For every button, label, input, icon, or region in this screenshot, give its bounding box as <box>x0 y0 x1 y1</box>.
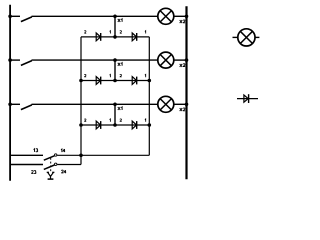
wire row1 from bus to switch S1 <box>10 15 20 17</box>
node branch3 right <box>148 123 152 127</box>
legend diode symbol <box>244 94 249 103</box>
wire 13 from bus to pushbutton contact <box>10 154 43 156</box>
wire lamp H2 to right bus <box>174 59 187 61</box>
switch S3 blade <box>21 105 32 110</box>
wire 24 to left column <box>57 164 81 166</box>
left bus L+ <box>9 5 11 181</box>
node row1 on left bus <box>8 14 12 18</box>
wire X1 drop row1 <box>114 16 116 37</box>
node branch2 right <box>148 79 152 83</box>
label 23 <box>31 171 36 174</box>
wire branch3 <box>81 124 149 126</box>
diode V5 <box>96 121 101 129</box>
switch S1 blade <box>21 17 32 22</box>
node branch3 center <box>113 123 117 127</box>
pin 2 V4 <box>120 74 122 77</box>
node branch2 left <box>79 79 83 83</box>
node row1 on right bus <box>185 14 189 18</box>
wire lamp H3 to right bus <box>174 103 187 105</box>
pin 1 V6 <box>144 119 147 122</box>
legend lamp left stub <box>233 36 238 38</box>
label X1 row2 <box>118 63 122 66</box>
node branch1 center <box>113 35 117 39</box>
pin 2 V5 <box>84 119 86 122</box>
lamp H3 <box>158 96 174 112</box>
wire 14 to right column <box>57 154 149 156</box>
label X1 row3 <box>118 107 122 110</box>
node row3 on right bus <box>185 103 189 107</box>
pin 2 V2 <box>120 31 122 34</box>
wire 23 from bus to pushbutton contact <box>10 164 43 166</box>
node X1 row3 <box>113 103 117 107</box>
lamp H1 <box>158 8 174 24</box>
pin 1 V4 <box>144 74 147 77</box>
diode V4 <box>132 77 137 85</box>
legend diode wire <box>237 98 258 100</box>
wire left diode column <box>80 37 82 155</box>
pin 1 V3 <box>109 74 112 77</box>
lamp H2 <box>158 52 174 68</box>
wire row3 switch to lamp H3 <box>32 103 158 105</box>
node X1 row1 <box>113 14 117 18</box>
legend lamp symbol <box>238 29 255 46</box>
diode V6 <box>132 121 137 129</box>
wire right diode column <box>148 37 150 155</box>
label 14 <box>61 149 65 152</box>
right bus L- <box>185 6 187 179</box>
diode V1 <box>96 33 101 41</box>
wire branch2 <box>81 80 149 82</box>
pin 2 V3 <box>84 74 86 77</box>
wire branch1 <box>81 36 149 38</box>
pushbutton S4 contact 23-24 blade <box>44 165 55 169</box>
pin 1 V1 <box>109 31 112 34</box>
label 13 <box>34 149 38 152</box>
pushbutton S4 actuator <box>47 172 55 179</box>
node test line left column <box>79 154 83 158</box>
pushbutton S4 contact 13-14 pivot circle <box>55 154 57 156</box>
pushbutton S4 contact 23-24 pivot circle <box>55 163 57 165</box>
wire X1 drop row2 <box>114 60 116 80</box>
legend lamp right stub <box>255 36 259 38</box>
wire row2 switch to lamp H2 <box>32 59 158 61</box>
node row3 on left bus <box>8 103 12 107</box>
node row2 on left bus <box>8 58 12 62</box>
diode V3 <box>96 77 101 85</box>
wire row1 switch to lamp H1 <box>32 15 158 17</box>
node X1 row2 <box>113 58 117 62</box>
label X2 row2 <box>180 64 185 67</box>
label X2 row1 <box>180 20 185 23</box>
node branch3 left <box>79 123 83 127</box>
pin 1 V2 <box>144 31 147 34</box>
pushbutton S4 linkage (dashed) <box>50 158 52 172</box>
wire 24 riser <box>80 155 82 164</box>
wire X1 drop row3 <box>114 104 116 125</box>
wire lamp H1 to right bus <box>174 15 187 17</box>
pin 1 V5 <box>109 119 112 122</box>
wire row2 from bus to switch S2 <box>10 59 20 61</box>
label 24 <box>61 170 66 173</box>
wire row3 from bus to switch S3 <box>10 103 20 105</box>
diode V2 <box>132 33 137 41</box>
label X2 row3 <box>180 108 185 111</box>
switch S2 blade <box>21 61 32 66</box>
pin 2 V6 <box>120 119 122 122</box>
pushbutton S4 contact 13-14 blade <box>44 156 55 160</box>
label X1 row1 <box>118 19 122 22</box>
node row2 on right bus <box>185 58 189 62</box>
node branch2 center <box>113 79 117 83</box>
pin 2 V1 <box>84 31 86 34</box>
